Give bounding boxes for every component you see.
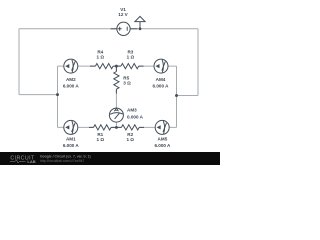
ammeter AM2 xyxy=(64,59,78,73)
lead R3 xyxy=(116,65,143,67)
svg-text:http://circuitlab.com/c/7xw9k7: http://circuitlab.com/c/7xw9k7 xyxy=(40,159,84,163)
lead V1 left xyxy=(111,28,117,30)
resistor R2 xyxy=(121,125,139,130)
svg-text:1 Ω: 1 Ω xyxy=(97,137,105,142)
junction dot middle row xyxy=(115,65,118,68)
wire right stub xyxy=(177,95,199,97)
lead V1 right xyxy=(130,28,137,30)
svg-text:AM3: AM3 xyxy=(127,108,137,113)
wire right outer vertical xyxy=(197,29,199,96)
svg-text:3 Ω: 3 Ω xyxy=(123,81,131,86)
wire center vertical lower xyxy=(115,89,117,127)
svg-text:LAB: LAB xyxy=(27,159,35,164)
ammeter AM5 xyxy=(155,120,169,134)
resistor R3 xyxy=(121,64,139,69)
svg-text:1 Ω: 1 Ω xyxy=(127,55,135,60)
svg-text:AM4: AM4 xyxy=(156,77,166,82)
junction dot bottom row xyxy=(115,126,118,129)
junction dot left stub xyxy=(56,93,59,96)
svg-text:R5: R5 xyxy=(123,75,129,80)
ammeter AM3 xyxy=(109,108,123,122)
wire left outer vertical xyxy=(18,29,20,95)
svg-text:6.000 A: 6.000 A xyxy=(63,83,80,88)
wire middle row segment 2 xyxy=(113,65,121,67)
wire left stub xyxy=(19,94,58,96)
svg-text:12 V: 12 V xyxy=(118,12,128,17)
wire right inner vertical xyxy=(176,66,178,127)
junction dot right stub xyxy=(175,94,178,97)
svg-text:Google / Circuit (ex. 7, var.: Google / Circuit (ex. 7, var. b: 1) xyxy=(40,154,91,158)
svg-text:6.000 A: 6.000 A xyxy=(63,143,80,148)
wire center vertical upper xyxy=(115,66,117,71)
svg-text:AM1: AM1 xyxy=(66,137,76,142)
wire left inner vertical xyxy=(57,66,59,127)
svg-text:1 Ω: 1 Ω xyxy=(126,137,134,142)
ammeter AM4 xyxy=(154,59,168,73)
svg-text:6.000 A: 6.000 A xyxy=(154,143,171,148)
svg-text:6.000 A: 6.000 A xyxy=(153,83,170,88)
lead R5 xyxy=(115,68,117,94)
wire top rail xyxy=(19,28,198,30)
ammeter AM1 xyxy=(64,120,78,134)
lead R1 xyxy=(89,126,116,128)
resistor R4 xyxy=(95,64,113,69)
lead R4 xyxy=(90,65,116,67)
junction dot top rail xyxy=(139,27,142,30)
wire bottom row segment 3 xyxy=(139,126,176,128)
wire bottom row segment 2 xyxy=(111,126,121,128)
wire bottom row segment 1 xyxy=(58,126,94,128)
resistor R5 xyxy=(114,72,119,90)
node flag (reference triangle) xyxy=(135,16,145,28)
footer watermark bar xyxy=(0,152,220,165)
voltage source V1 xyxy=(117,22,130,35)
svg-text:0.000 A: 0.000 A xyxy=(127,114,144,119)
resistor R1 xyxy=(94,125,112,130)
lead R2 xyxy=(116,126,144,128)
svg-text:1 Ω: 1 Ω xyxy=(97,55,105,60)
svg-text:AM2: AM2 xyxy=(66,77,76,82)
svg-text:AM5: AM5 xyxy=(158,137,168,142)
wire middle row segment 3 xyxy=(139,65,177,67)
wire middle row segment 1 xyxy=(58,65,96,67)
